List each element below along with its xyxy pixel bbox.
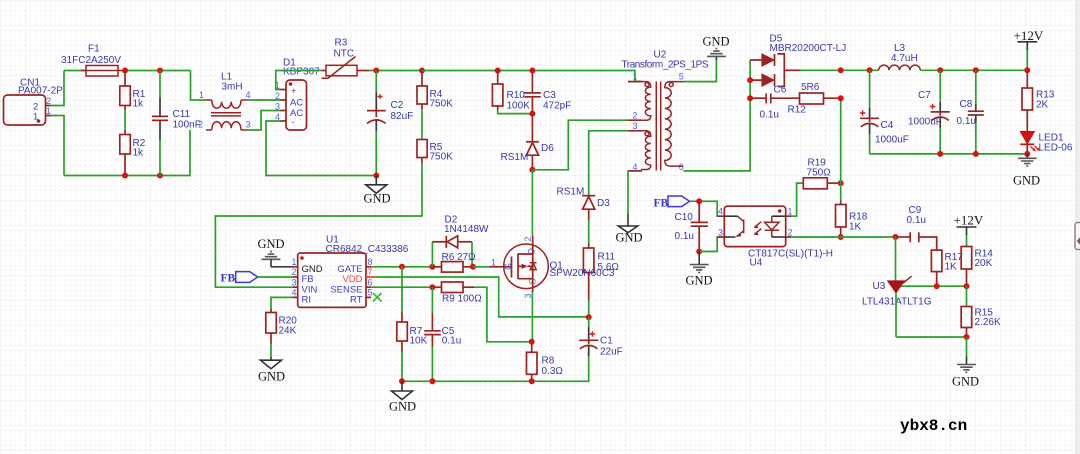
- resistor R2 1k: [120, 130, 146, 176]
- capacitor C6 0.1u: [750, 85, 799, 121]
- junction C2 bottom gnd: [373, 173, 379, 179]
- resistor R13 2K: [1022, 70, 1055, 131]
- led LED1 LED-06: [1020, 132, 1073, 154]
- svg-text:2: 2: [523, 236, 533, 241]
- junction R6 left: [429, 264, 435, 270]
- svg-text:C10: C10: [675, 212, 694, 223]
- resistor R10 100K: [492, 71, 532, 114]
- junction R10 top: [495, 68, 501, 74]
- wire L1 pin3 to D1 pin3: [247, 111, 281, 131]
- junction output rail C4: [867, 67, 873, 73]
- ground flag under R7: [389, 381, 416, 413]
- wire switch node to Q1 drain: [531, 170, 533, 236]
- diode D3 RS1M: [557, 187, 611, 221]
- svg-text:4: 4: [246, 90, 251, 100]
- svg-text:R10: R10: [507, 90, 526, 101]
- wire R1 to R2: [124, 110, 126, 130]
- svg-text:D3: D3: [597, 198, 610, 209]
- svg-text:4: 4: [718, 207, 723, 217]
- ground flag above transformer pin5: [703, 35, 730, 61]
- power flag +12V mid: [954, 213, 984, 247]
- svg-text:10K: 10K: [410, 336, 428, 347]
- svg-text:82uF: 82uF: [391, 111, 414, 122]
- junction C3 top: [529, 68, 535, 74]
- svg-text:2: 2: [46, 96, 51, 106]
- junction out rail C8: [973, 151, 979, 157]
- ground flag under transformer pin4: [616, 214, 643, 245]
- junction C2 top: [373, 68, 379, 74]
- svg-text:1: 1: [491, 258, 496, 268]
- svg-text:1K: 1K: [849, 222, 862, 233]
- junction rail R13: [1024, 67, 1030, 73]
- wire FB flag to U1 pin2: [258, 276, 293, 278]
- wire optocoupler pin1 to R19: [791, 183, 803, 216]
- ground flag output: [1013, 154, 1040, 188]
- svg-text:D6: D6: [541, 143, 554, 154]
- junction top rail R1: [122, 68, 128, 74]
- svg-text:PA007-2P: PA007-2P: [18, 86, 63, 97]
- bridge rectifier D1 KBP307: [275, 58, 320, 131]
- connector CN1 PA007-2P: [4, 78, 64, 126]
- junction R4 top: [419, 68, 425, 74]
- resistor R11 5.6ohm: [583, 244, 619, 301]
- resistor R7 10K: [397, 312, 428, 352]
- resistor R17 1K: [931, 250, 963, 286]
- resistor R5 750K: [417, 140, 453, 164]
- diode D2 1N4148W: [432, 215, 489, 267]
- svg-text:1: 1: [633, 72, 638, 82]
- wire U1 pin6 sense: [371, 286, 432, 288]
- wire snubber node down R18: [840, 98, 842, 200]
- svg-text:+12V: +12V: [954, 213, 984, 228]
- svg-text:3: 3: [292, 277, 297, 287]
- wire gate node to R7: [401, 267, 403, 312]
- svg-text:24K: 24K: [279, 326, 297, 337]
- junction output rail R12 column: [838, 67, 844, 73]
- junction sense node C5: [429, 284, 435, 290]
- svg-text:20K: 20K: [975, 258, 993, 269]
- mosfet Q1 SPW20N60C3: [489, 236, 615, 298]
- svg-text:1k: 1k: [133, 99, 145, 110]
- svg-text:C2: C2: [391, 100, 404, 111]
- svg-text:FB: FB: [221, 273, 236, 285]
- wire U3 anode to R15 bottom: [896, 336, 967, 338]
- svg-text:C6: C6: [774, 85, 787, 96]
- wire top rail F1 segment: [64, 70, 86, 72]
- shunt regulator U3 LTL431ATLT1G: [862, 237, 932, 337]
- wire switch node to transformer pin2: [532, 120, 628, 170]
- wire L1 pin4 to D1 pin2: [247, 99, 281, 101]
- wire R11 to vdd node: [588, 300, 590, 317]
- wire FB flag to optocoupler: [690, 201, 720, 216]
- svg-text:1000uF: 1000uF: [908, 117, 942, 128]
- svg-text:0.1u: 0.1u: [675, 231, 694, 242]
- svg-text:+: +: [291, 86, 297, 97]
- svg-text:6: 6: [368, 277, 373, 287]
- svg-text:1K: 1K: [945, 262, 958, 273]
- junction bottom rail C11: [157, 173, 163, 179]
- wire transformer pin5 to top ground: [683, 60, 716, 82]
- svg-text:LED-06: LED-06: [1039, 143, 1073, 154]
- svg-text:SPW20N60C3: SPW20N60C3: [550, 268, 615, 279]
- resistor R14 20K: [961, 247, 993, 287]
- capacitor C8 0.1u: [957, 70, 984, 154]
- wire R9 to Q1 source node: [474, 287, 532, 342]
- wire transformer pin4 to ground: [627, 171, 629, 214]
- junction bottom rail C5: [429, 378, 435, 384]
- svg-text:R8: R8: [542, 356, 555, 367]
- svg-text:RS1M: RS1M: [557, 187, 585, 198]
- svg-text:GND: GND: [258, 237, 285, 251]
- svg-text:8: 8: [368, 257, 373, 267]
- svg-text:472pF: 472pF: [543, 101, 571, 112]
- junction snubber tap: [747, 95, 753, 101]
- junction aux node C1: [586, 314, 592, 320]
- junction top rail C11: [157, 68, 163, 74]
- junction rail C8: [973, 67, 979, 73]
- wire gnd flag to U1 pin1: [271, 266, 293, 268]
- svg-text:G: G: [503, 263, 513, 270]
- wire R15 junction to ground: [966, 337, 968, 357]
- svg-text:31FC2A250V: 31FC2A250V: [61, 55, 121, 66]
- svg-text:GND: GND: [616, 231, 643, 245]
- svg-text:4: 4: [292, 288, 297, 298]
- capacitor C10 0.1u: [675, 201, 708, 251]
- svg-text:7: 7: [368, 267, 373, 277]
- junction C9 node U3: [893, 234, 899, 240]
- panel tab right edge: [1075, 223, 1080, 250]
- wire U1 pin8 gate drive: [371, 266, 432, 268]
- resistor R18 1K: [836, 201, 868, 238]
- svg-text:750K: 750K: [430, 99, 454, 110]
- junction R18 bottom: [838, 234, 844, 240]
- resistor R6 27ohm: [432, 252, 476, 272]
- svg-text:2: 2: [198, 120, 203, 130]
- junction out rail C7: [937, 151, 943, 157]
- svg-text:2: 2: [292, 267, 297, 277]
- ic U1 CR6842_C433386: [292, 235, 409, 308]
- resistor R12 5R6: [788, 82, 841, 116]
- junction divider R17: [934, 283, 940, 289]
- svg-text:3: 3: [633, 121, 638, 131]
- svg-text:2.26K: 2.26K: [975, 317, 1001, 328]
- wire top rail to L1 pin1: [191, 71, 207, 101]
- svg-text:5: 5: [368, 288, 373, 298]
- svg-text:F1: F1: [88, 44, 100, 55]
- capacitor C5 0.1u: [424, 287, 461, 381]
- wire R14 junction to R15: [966, 286, 968, 306]
- wire bottom rail input section: [64, 130, 190, 176]
- resistor R1 1k: [120, 71, 146, 111]
- svg-text:C8: C8: [960, 99, 973, 110]
- svg-text:RI: RI: [302, 295, 312, 306]
- power flag +12V top right: [1014, 28, 1044, 43]
- capacitor C1 22uF: [579, 317, 623, 357]
- svg-text:GND: GND: [952, 375, 979, 389]
- svg-text:5: 5: [679, 72, 684, 82]
- wire R6 to Q1 gate: [473, 266, 489, 268]
- svg-text:MBR20200CT-LJ: MBR20200CT-LJ: [770, 43, 847, 54]
- junction out rail LED: [1024, 151, 1030, 157]
- diode D6 RS1M: [501, 114, 555, 170]
- wire R7 to bottom rail: [401, 352, 403, 381]
- wire CN1 pin1 to bottom rail: [51, 116, 65, 176]
- junction D5 anode lower: [747, 77, 753, 83]
- svg-text:AC: AC: [290, 98, 303, 109]
- net flag FB right: [654, 196, 690, 210]
- thermistor R3 NTC: [322, 38, 370, 79]
- svg-text:750Ω: 750Ω: [807, 168, 832, 179]
- optocoupler U4 CT817C: [717, 206, 833, 268]
- wire optocoupler pin2 to C9 node: [791, 236, 896, 238]
- junction switch node: [529, 167, 535, 173]
- wire R20 to ground: [270, 344, 272, 357]
- svg-text:KBP307: KBP307: [283, 67, 320, 78]
- svg-text:100K: 100K: [507, 101, 531, 112]
- svg-text:3: 3: [523, 293, 533, 298]
- ground flag under R15: [952, 357, 979, 389]
- svg-text:GND: GND: [258, 370, 285, 384]
- svg-text:+12V: +12V: [1014, 28, 1044, 43]
- svg-text:R12: R12: [788, 105, 807, 116]
- transformer U2 Transform_2PS_1PS: [622, 50, 709, 172]
- svg-text:0.1u: 0.1u: [907, 215, 926, 226]
- resistor R4 750K: [417, 71, 453, 110]
- wire D1 pin4 down to gnd rail: [266, 121, 376, 176]
- capacitor C4 1000uF: [860, 70, 909, 154]
- svg-text:1: 1: [46, 106, 51, 116]
- capacitor C7 1000uF: [908, 70, 950, 154]
- wire R3 to junction: [369, 70, 422, 72]
- svg-text:5R6: 5R6: [801, 82, 820, 93]
- svg-text:2: 2: [788, 227, 793, 237]
- ground flag under C2: [364, 176, 391, 206]
- svg-text:2: 2: [633, 111, 638, 121]
- wire D3 to R11: [588, 220, 590, 244]
- svg-text:GND: GND: [686, 274, 713, 288]
- svg-text:R3: R3: [335, 38, 348, 49]
- svg-text:750K: 750K: [430, 152, 454, 163]
- junction R19 right: [838, 180, 844, 186]
- resistor R8 0.3ohm: [527, 344, 564, 381]
- svg-text:D: D: [527, 248, 537, 255]
- svg-text:Transform_2PS_1PS: Transform_2PS_1PS: [622, 60, 709, 71]
- ground flag under R20: [258, 357, 285, 384]
- svg-text:0.3Ω: 0.3Ω: [542, 366, 564, 377]
- svg-text:ybx8.cn: ybx8.cn: [900, 417, 967, 435]
- scrollbar track right edge: [1077, 0, 1080, 454]
- svg-text:R9 100Ω: R9 100Ω: [442, 294, 482, 305]
- wire CN1 pin2 to fuse rail: [51, 71, 65, 106]
- svg-text:C7: C7: [918, 90, 931, 101]
- svg-text:U3: U3: [873, 281, 886, 292]
- inductor L3 4.7uH: [879, 43, 921, 70]
- svg-text:GND: GND: [703, 35, 730, 49]
- svg-text:2K: 2K: [1036, 100, 1049, 111]
- svg-text:22uF: 22uF: [600, 347, 623, 358]
- capacitor C9 0.1u: [896, 205, 937, 250]
- fuse F1 31FC2A250V: [61, 44, 123, 77]
- svg-text:1000uF: 1000uF: [875, 135, 909, 146]
- svg-text:3: 3: [246, 120, 251, 130]
- svg-text:C3: C3: [543, 90, 556, 101]
- svg-text:1: 1: [199, 90, 204, 100]
- resistor R19 750ohm: [803, 158, 840, 189]
- wire U3 ref divider row: [901, 285, 967, 287]
- wire U1 pin7 VDD to aux supply: [376, 277, 589, 317]
- capacitor C2 82uF: [367, 71, 413, 176]
- svg-text:3mH: 3mH: [222, 82, 243, 93]
- junction R15 bottom: [964, 334, 970, 340]
- svg-text:GND: GND: [1013, 174, 1040, 188]
- resistor R9 100ohm: [432, 282, 482, 305]
- inductor L1 3mH (common mode choke): [198, 72, 251, 131]
- svg-text:C4: C4: [881, 120, 894, 131]
- junction snubber right: [838, 95, 844, 101]
- ground flag under C10: [686, 252, 713, 288]
- resistor R15 2.26K: [961, 307, 1001, 338]
- svg-text:C1: C1: [600, 336, 613, 347]
- wire U1 pin4 to R20: [271, 297, 293, 309]
- junction C10 top: [696, 198, 702, 204]
- svg-text:1k: 1k: [133, 148, 145, 159]
- svg-text:FB: FB: [654, 198, 669, 210]
- svg-text:100nF: 100nF: [173, 120, 201, 131]
- svg-text:4.7uH: 4.7uH: [891, 53, 918, 64]
- junction rail C7: [937, 67, 943, 73]
- wire R5 down to VIN feed: [215, 163, 422, 287]
- junction clamp node: [529, 111, 535, 117]
- wire D1 pin1 to top rail: [276, 71, 322, 90]
- svg-text:1N4148W: 1N4148W: [444, 224, 489, 235]
- junction bottom rail R8: [529, 378, 535, 384]
- svg-text:0.1u: 0.1u: [442, 336, 461, 347]
- junction divider R14 R15: [964, 283, 970, 289]
- svg-text:3: 3: [718, 227, 723, 237]
- svg-text:0.1u: 0.1u: [957, 116, 976, 127]
- svg-text:RS1M: RS1M: [501, 152, 529, 163]
- wire top rail F1 to R3: [123, 70, 191, 72]
- wire L3 to +12V rail: [920, 50, 1027, 70]
- capacitor C3 472pF: [524, 71, 571, 114]
- junction bottom rail R2: [122, 173, 128, 179]
- capacitor C11 100nF: [152, 71, 201, 176]
- svg-text:GND: GND: [389, 400, 416, 414]
- wire R4 to R5: [421, 109, 423, 140]
- svg-text:NTC: NTC: [334, 49, 355, 60]
- svg-text:2: 2: [275, 91, 280, 101]
- dual diode D5 MBR20200CT-LJ: [750, 34, 846, 87]
- wire D5 output rail: [800, 69, 879, 71]
- svg-text:U4: U4: [750, 258, 763, 269]
- wire transformer pin6 to D5: [683, 60, 750, 171]
- junction gate drive R7: [399, 264, 405, 270]
- svg-text:0.1u: 0.1u: [760, 110, 779, 121]
- bottom rail gnd primary: [402, 353, 589, 382]
- svg-text:-: -: [292, 117, 295, 128]
- svg-text:1: 1: [788, 207, 793, 217]
- svg-text:3: 3: [275, 102, 280, 112]
- junction C10 bottom: [696, 249, 702, 255]
- net flag FB left: [221, 272, 258, 285]
- svg-text:1: 1: [292, 257, 297, 267]
- wire top rail R4 to transformer: [422, 71, 642, 82]
- junction R6 right: [470, 264, 476, 270]
- svg-text:C11: C11: [173, 109, 191, 120]
- svg-text:RT: RT: [350, 295, 363, 306]
- junction Q1 source R9: [529, 339, 535, 345]
- resistor R20 24K: [266, 309, 297, 344]
- wire Q1 source down: [532, 279, 534, 292]
- ground flag above U1 pin1: [258, 237, 285, 267]
- wire transformer pin3 to D3: [589, 131, 628, 196]
- svg-text:R11: R11: [598, 252, 616, 263]
- junction bottom rail R7: [399, 378, 405, 384]
- wire C10 bottom to optocoupler pin3: [699, 237, 719, 252]
- svg-text:GND: GND: [364, 192, 391, 206]
- output ground rail: [870, 153, 1028, 155]
